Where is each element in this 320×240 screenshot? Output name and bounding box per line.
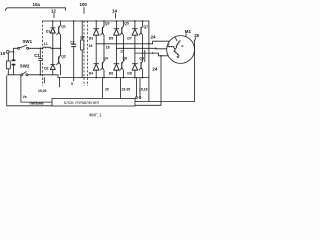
svg-text:ФИГ. 1: ФИГ. 1 [89,112,102,117]
top DC bus [43,20,149,22]
inverter leg 2 upper : diode D5 [115,21,117,29]
control wire sense a [136,78,138,97]
svg-text:Q7: Q7 [144,25,149,29]
wire terminal to SW1 [9,48,17,52]
svg-text:D3: D3 [89,36,93,40]
control wire gates 2 [102,78,104,99]
bottom rail left [8,74,21,76]
svg-text:16: 16 [89,44,93,48]
inverter leg 2 lower : diode D6 [115,48,117,63]
svg-text:24: 24 [152,66,157,71]
svg-text:Питание: Питание [30,102,44,106]
svg-text:Q1: Q1 [61,25,66,29]
phase 3 jog to motor [159,53,168,56]
svg-text:Q5: Q5 [124,22,129,26]
svg-text:D8: D8 [127,71,131,75]
svg-text:16,18: 16,18 [139,88,148,92]
svg-text:SW1: SW1 [23,39,33,44]
svg-text:12: 12 [51,9,56,14]
bus tick left [43,78,45,83]
svg-text:24: 24 [151,35,156,40]
control wire sense b [139,78,141,97]
svg-text:D7: D7 [127,36,131,40]
svg-text:23-25: 23-25 [122,88,131,92]
25 arrowhead [194,40,195,42]
dashed box edge mid (box 100 right) [83,21,85,86]
node 15 tick [73,78,75,81]
svg-text:Vs: Vs [23,95,27,99]
wire down to control (left) [21,76,52,102]
motor M1 [167,36,195,64]
inverter leg 3 upper : diode D7 [134,21,136,29]
svg-text:18: 18 [106,46,110,50]
input terminal 10 [6,51,9,54]
dashed box edge inverter left (box 14) [87,21,89,86]
svg-text:10a: 10a [33,2,41,7]
svg-text:L1: L1 [44,42,48,46]
feedback wire from motor 25 [135,43,195,102]
svg-text:10: 10 [0,51,5,56]
svg-text:D5: D5 [109,36,113,40]
inverter leg 1 upper : diode D3 [95,21,97,29]
capacitor (left column dark element) [13,52,15,60]
svg-text:5: 5 [71,82,73,86]
wire SW1 to L1 [29,47,43,49]
sense wire down right [135,56,161,106]
bus right corner down [148,21,150,102]
svg-text:14: 14 [112,8,117,13]
inverter leg 3 lower : diode D8 [134,53,136,64]
phase 1 jog to motor [153,41,171,44]
svg-text:Q8: Q8 [139,57,144,61]
svg-text:19,20: 19,20 [38,89,47,93]
svg-text:D1: D1 [46,29,50,33]
control wire gates 3 [120,78,122,99]
svg-text:БЛОК УПРАВЛЕНИЯ: БЛОК УПРАВЛЕНИЯ [64,101,99,105]
svg-text:Q2: Q2 [61,55,66,59]
bottom DC bus [58,75,149,78]
svg-text:D2: D2 [44,66,48,70]
svg-text:D6: D6 [109,71,113,75]
gate wire leg3 lower [144,50,146,61]
wire down to control (far left) [7,76,52,106]
svg-text:SW2: SW2 [20,64,30,69]
svg-text:20: 20 [105,88,109,92]
inverter leg 1 lower : diode D4 [95,44,97,64]
svg-text:v: v [168,42,170,46]
svg-text:u: u [181,44,183,48]
control wire gates 1 [59,78,61,87]
svg-text:100: 100 [80,2,88,7]
svg-text:C1: C1 [34,53,40,58]
phase 2 jog to motor [156,47,169,50]
svg-text:Q3: Q3 [105,22,110,26]
svg-text:D4: D4 [89,71,93,75]
svg-text:25: 25 [194,33,199,38]
control block [52,98,135,106]
resistor R (left column) [7,53,9,61]
dashed box edge left (box 12) [42,21,44,86]
